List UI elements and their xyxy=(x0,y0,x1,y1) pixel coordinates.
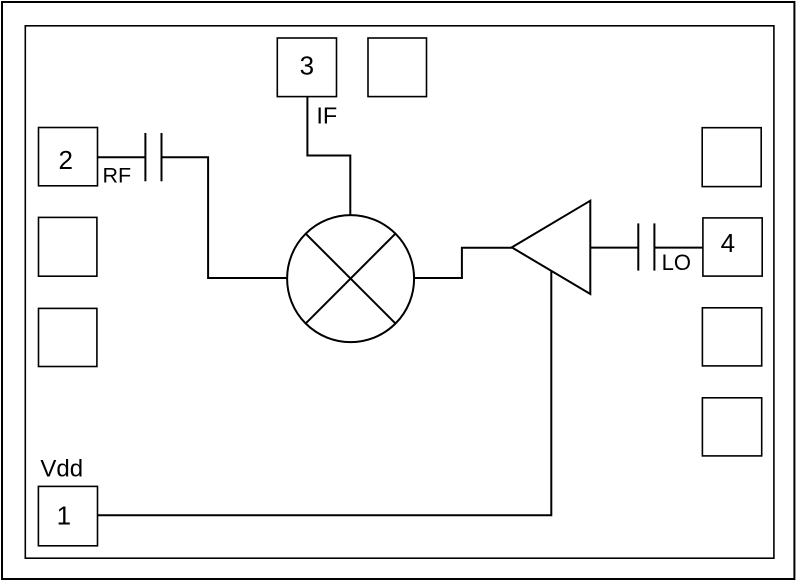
pad NC left lower xyxy=(39,308,97,366)
pad NC right top xyxy=(702,128,761,187)
svg-text:1: 1 xyxy=(57,500,71,530)
pad 3 (IF pad) xyxy=(277,38,336,97)
wire pad1 Vdd to amp bias xyxy=(98,271,552,516)
pad 2 (RF pad) xyxy=(39,128,98,186)
svg-text:RF: RF xyxy=(103,164,132,188)
pad NC right bottom xyxy=(702,398,761,456)
mixer U1 cross line 2 xyxy=(306,234,396,324)
mixer U1 cross line 1 xyxy=(306,234,396,324)
svg-text:2: 2 xyxy=(58,145,72,175)
wire pad3 to mixer IF port xyxy=(307,97,350,216)
pad NC top xyxy=(368,38,427,97)
svg-text:LO: LO xyxy=(662,250,691,275)
wire mixer LO port to amp output xyxy=(414,248,512,278)
wire C1 to mixer RF port xyxy=(162,157,287,278)
capacitor C2 plate right xyxy=(653,223,655,270)
capacitor C2 plate left xyxy=(637,223,639,270)
svg-text:IF: IF xyxy=(316,103,337,129)
pad NC left upper xyxy=(39,217,97,276)
pad NC right third xyxy=(702,308,761,366)
wire C2 to pad4 xyxy=(654,247,703,249)
capacitor C1 plate right xyxy=(161,133,163,181)
mixer U1 circle xyxy=(287,215,414,342)
capacitor C1 plate left xyxy=(144,133,146,181)
svg-text:Vdd: Vdd xyxy=(40,455,83,482)
pad 4 (LO pad) xyxy=(703,218,762,276)
svg-text:4: 4 xyxy=(721,228,735,258)
LO buffer amp A1 (triangle) xyxy=(512,201,591,294)
wire pad2 to C1 xyxy=(98,156,146,158)
svg-text:3: 3 xyxy=(300,51,314,81)
pad 1 (Vdd pad) xyxy=(38,486,97,545)
wire amp input to C2 xyxy=(590,247,638,249)
